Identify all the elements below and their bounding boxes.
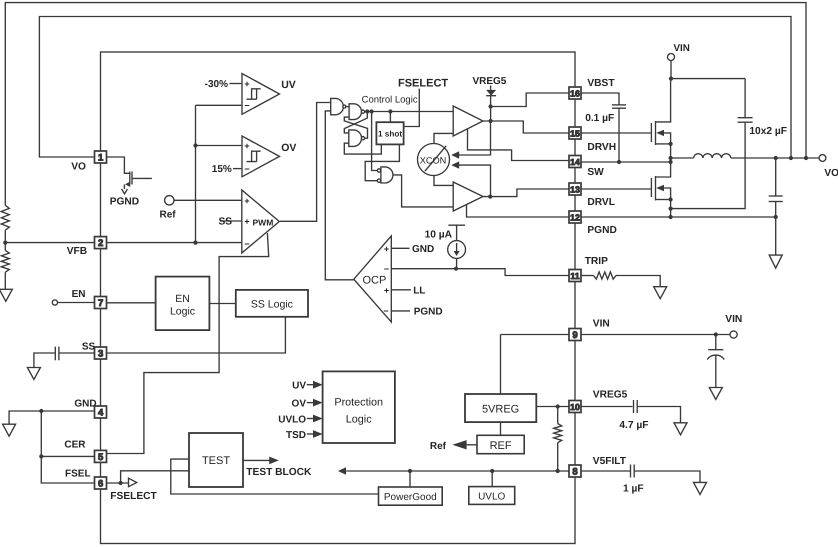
svg-text:12: 12 bbox=[570, 213, 580, 223]
svg-text:VO: VO bbox=[824, 168, 838, 179]
svg-text:+: + bbox=[244, 196, 249, 206]
svg-text:TSD: TSD bbox=[286, 430, 306, 441]
svg-text:15%: 15% bbox=[212, 164, 232, 175]
svg-text:FSELECT: FSELECT bbox=[110, 491, 157, 502]
svg-text:V5FILT: V5FILT bbox=[593, 456, 627, 467]
svg-text:SS: SS bbox=[82, 342, 96, 353]
svg-text:TRIP: TRIP bbox=[585, 256, 608, 267]
svg-text:GND: GND bbox=[412, 244, 434, 255]
svg-text:1 µF: 1 µF bbox=[623, 484, 644, 495]
svg-text:−: − bbox=[384, 264, 389, 274]
svg-text:15: 15 bbox=[570, 129, 580, 139]
svg-text:−: − bbox=[383, 306, 388, 316]
svg-text:PGND: PGND bbox=[110, 197, 139, 208]
svg-text:5VREG: 5VREG bbox=[482, 403, 519, 415]
svg-text:+: + bbox=[244, 79, 249, 89]
svg-text:OV: OV bbox=[281, 142, 296, 154]
svg-text:VO: VO bbox=[71, 162, 86, 173]
svg-text:-30%: -30% bbox=[205, 79, 228, 90]
svg-text:1 shot: 1 shot bbox=[378, 130, 402, 139]
svg-text:VBST: VBST bbox=[587, 78, 615, 89]
svg-text:9: 9 bbox=[572, 330, 577, 341]
svg-text:FSEL: FSEL bbox=[65, 469, 91, 480]
svg-text:8: 8 bbox=[572, 467, 577, 478]
svg-text:VIN: VIN bbox=[674, 43, 690, 54]
svg-text:OCP: OCP bbox=[363, 275, 387, 287]
svg-text:VIN: VIN bbox=[725, 314, 742, 325]
svg-text:TEST: TEST bbox=[202, 455, 230, 467]
svg-text:11: 11 bbox=[570, 271, 579, 281]
svg-text:Control Logic: Control Logic bbox=[362, 94, 418, 105]
svg-text:TEST BLOCK: TEST BLOCK bbox=[246, 467, 312, 478]
svg-text:VFB: VFB bbox=[67, 246, 87, 257]
svg-text:PGND: PGND bbox=[587, 225, 616, 236]
svg-text:SS Logic: SS Logic bbox=[251, 298, 293, 310]
svg-text:OV: OV bbox=[292, 398, 307, 409]
svg-text:10: 10 bbox=[570, 402, 580, 412]
svg-text:DRVL: DRVL bbox=[587, 197, 615, 208]
svg-text:6: 6 bbox=[98, 479, 103, 490]
svg-text:−: − bbox=[244, 164, 249, 174]
svg-text:VREG5: VREG5 bbox=[472, 76, 506, 87]
svg-text:GND: GND bbox=[74, 399, 96, 410]
svg-text:UVLO: UVLO bbox=[478, 492, 505, 503]
svg-text:0.1 µF: 0.1 µF bbox=[585, 113, 614, 124]
svg-text:10 µA: 10 µA bbox=[425, 230, 453, 241]
svg-text:13: 13 bbox=[570, 185, 580, 195]
svg-text:4.7 µF: 4.7 µF bbox=[619, 420, 648, 431]
svg-text:CER: CER bbox=[64, 440, 86, 451]
svg-text:LL: LL bbox=[413, 285, 425, 296]
svg-text:3: 3 bbox=[98, 349, 103, 360]
svg-text:2: 2 bbox=[98, 238, 103, 249]
svg-text:16: 16 bbox=[570, 89, 580, 99]
svg-text:PGND: PGND bbox=[414, 307, 443, 318]
svg-text:−: − bbox=[244, 101, 249, 111]
svg-text:10x2 µF: 10x2 µF bbox=[749, 126, 787, 137]
svg-text:VIN: VIN bbox=[593, 319, 610, 330]
svg-text:XCON: XCON bbox=[420, 156, 447, 166]
svg-text:−: − bbox=[244, 239, 249, 249]
svg-text:PowerGood: PowerGood bbox=[384, 492, 437, 503]
svg-text:Ref: Ref bbox=[160, 210, 177, 221]
svg-text:Logic: Logic bbox=[346, 414, 372, 426]
svg-text:14: 14 bbox=[570, 157, 580, 167]
svg-text:5: 5 bbox=[98, 452, 104, 463]
svg-text:UV: UV bbox=[292, 381, 306, 392]
svg-text:EN: EN bbox=[175, 293, 190, 305]
svg-text:Logic: Logic bbox=[170, 306, 195, 318]
svg-text:+: + bbox=[384, 286, 389, 296]
svg-text:PWM: PWM bbox=[253, 217, 274, 227]
svg-text:1: 1 bbox=[98, 153, 104, 164]
svg-text:4: 4 bbox=[98, 408, 104, 419]
svg-text:+: + bbox=[384, 244, 389, 254]
svg-text:7: 7 bbox=[98, 298, 103, 309]
svg-text:+: + bbox=[244, 141, 249, 151]
svg-text:VREG5: VREG5 bbox=[593, 390, 628, 401]
svg-text:SW: SW bbox=[587, 167, 604, 178]
svg-text:FSELECT: FSELECT bbox=[398, 77, 448, 89]
svg-text:REF: REF bbox=[490, 440, 512, 452]
svg-text:UVLO: UVLO bbox=[278, 414, 306, 425]
svg-text:SS: SS bbox=[219, 217, 233, 228]
svg-text:DRVH: DRVH bbox=[587, 142, 616, 153]
svg-text:EN: EN bbox=[72, 289, 86, 300]
svg-text:+: + bbox=[244, 217, 249, 227]
svg-text:Protection: Protection bbox=[334, 396, 383, 408]
svg-text:Ref: Ref bbox=[430, 441, 447, 452]
svg-text:UV: UV bbox=[281, 79, 296, 91]
